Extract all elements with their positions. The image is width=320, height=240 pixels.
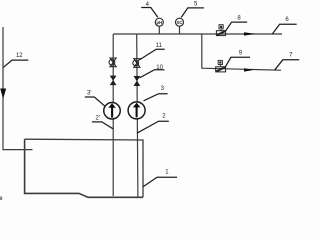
svg-text:2': 2' xyxy=(96,116,100,122)
svg-text:12: 12 xyxy=(16,53,23,59)
svg-text:3': 3' xyxy=(87,90,91,96)
svg-text:pH: pH xyxy=(157,20,163,25)
svg-text:11: 11 xyxy=(156,43,163,49)
svg-text:10: 10 xyxy=(156,65,163,71)
svg-text:SC: SC xyxy=(177,20,183,25)
